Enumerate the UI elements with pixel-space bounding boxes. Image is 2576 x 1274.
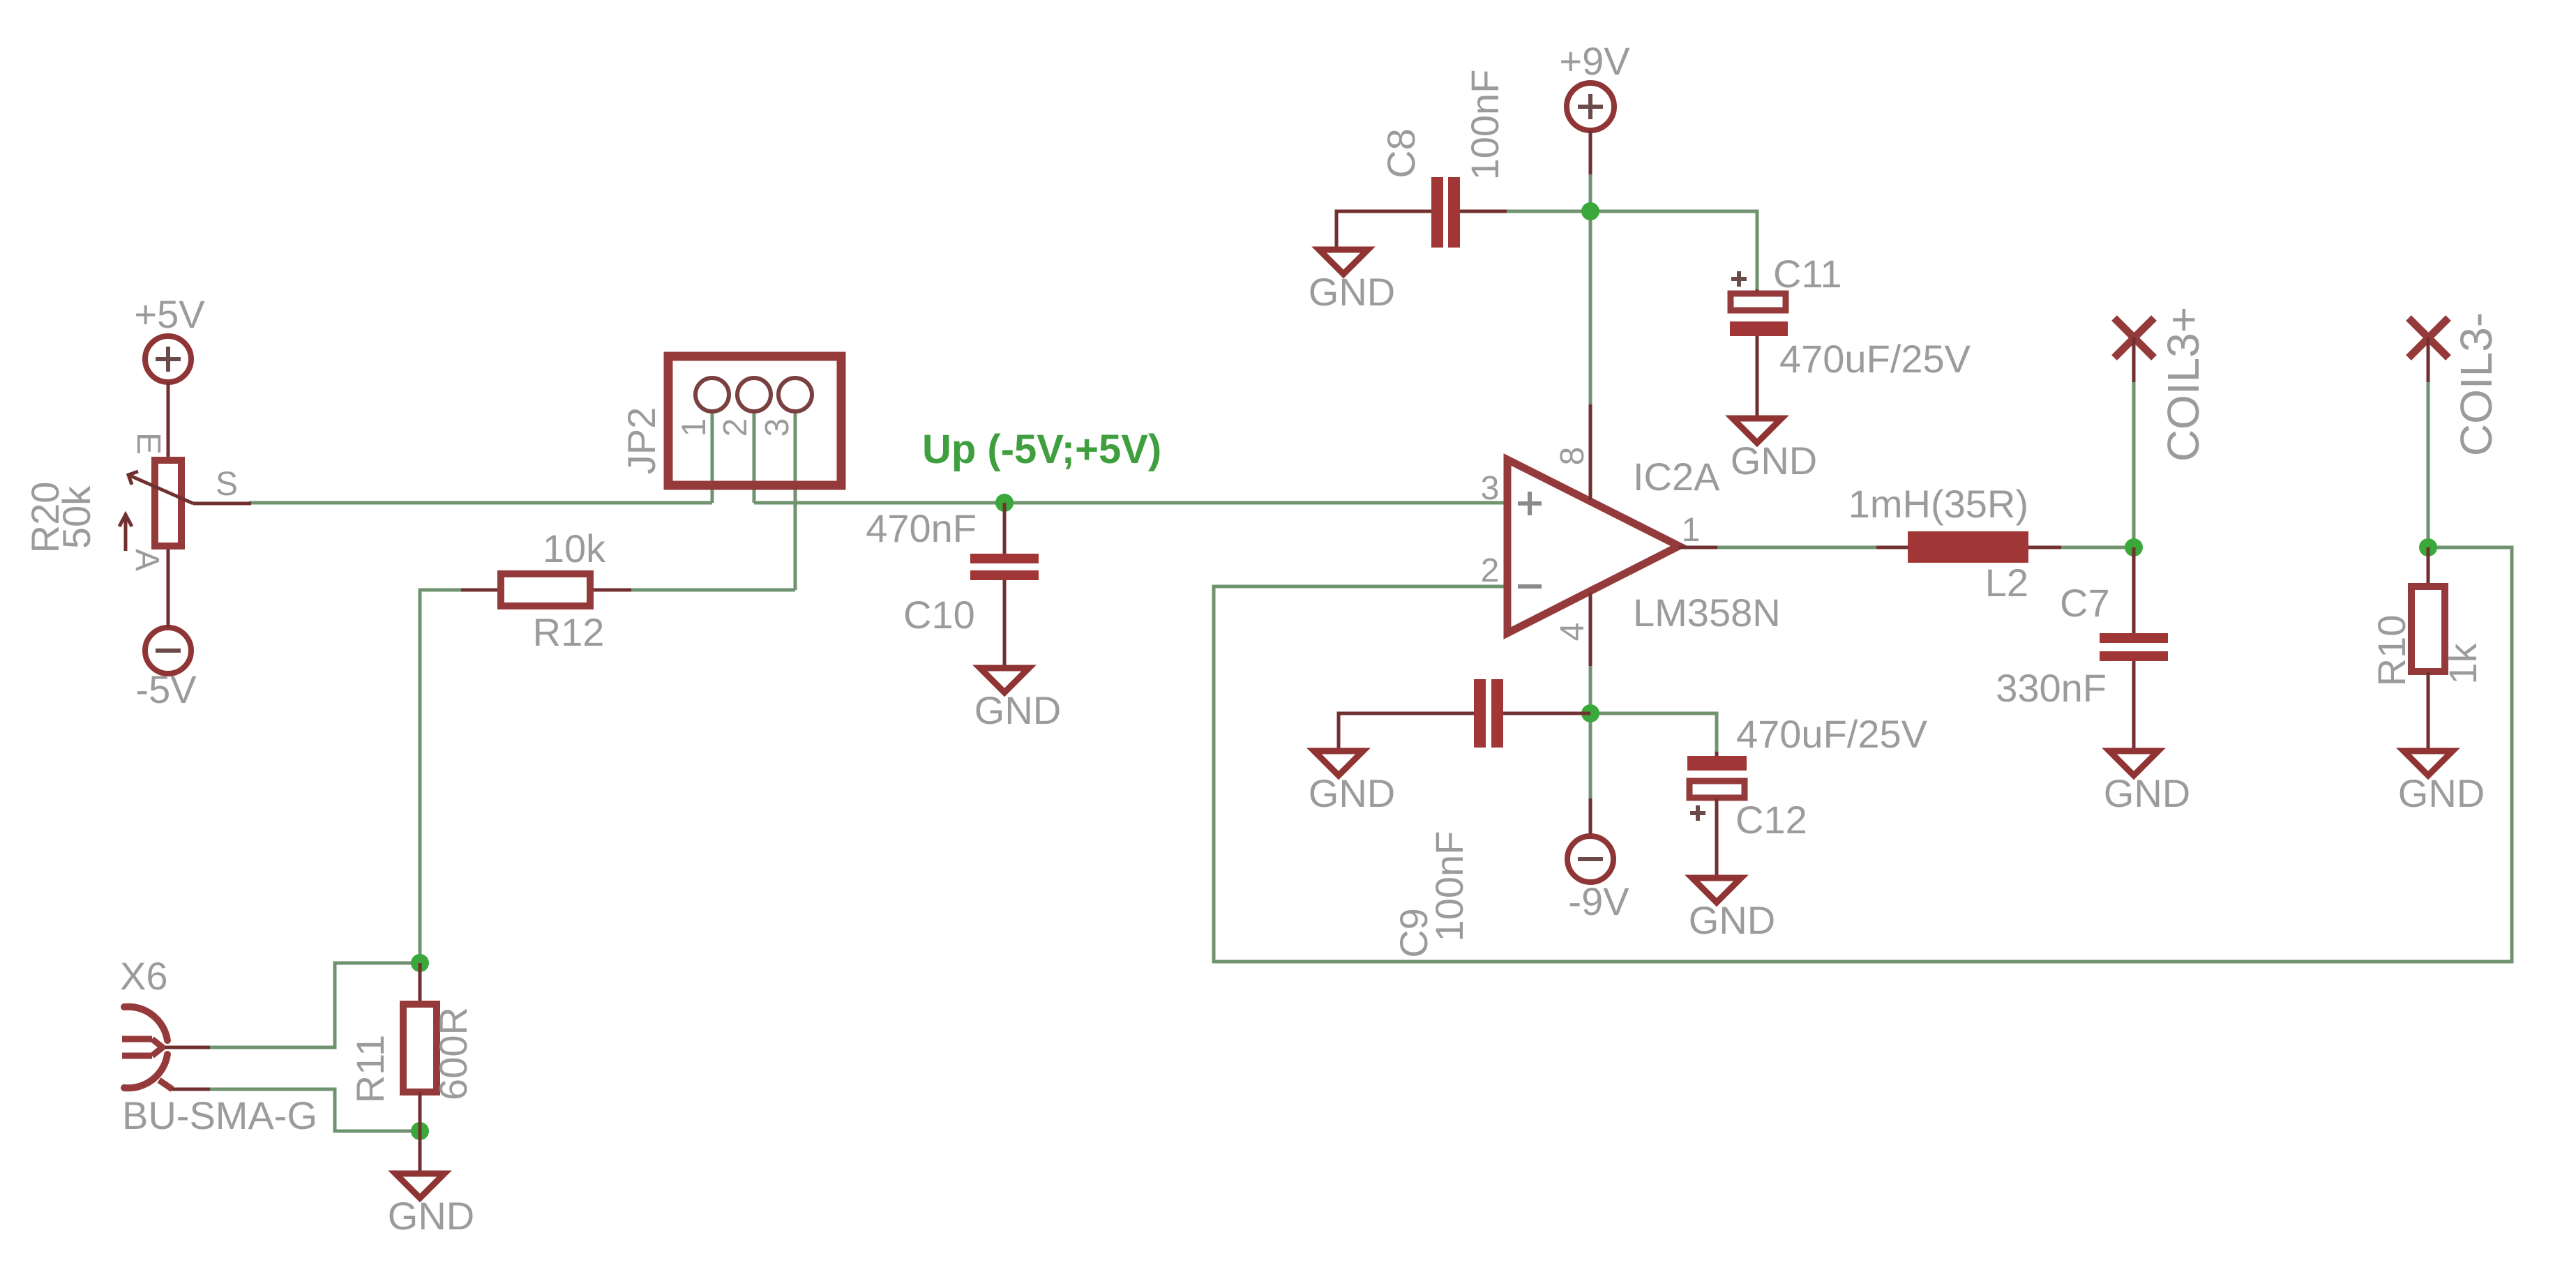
svg-text:-5V: -5V <box>135 667 197 711</box>
svg-text:LM358N: LM358N <box>1633 591 1781 635</box>
svg-text:A: A <box>128 549 165 571</box>
svg-text:C10: C10 <box>903 593 975 637</box>
wire JP2 pin 2 drop <box>753 411 756 503</box>
supply +5V <box>134 292 205 460</box>
svg-text:GND: GND <box>1309 771 1395 815</box>
wire node to X6 center pin <box>208 963 420 1047</box>
svg-text:4: 4 <box>1554 623 1591 642</box>
potentiometer R20 50k <box>23 432 251 571</box>
capacitor C9 100nF <box>1339 679 1590 958</box>
junction node R11 top <box>411 954 429 972</box>
pin COIL3+ <box>2114 307 2208 462</box>
svg-text:600R: 600R <box>431 1007 475 1100</box>
svg-text:R11: R11 <box>348 1035 392 1104</box>
wire +9V rail to C11 <box>1590 211 1757 291</box>
connector X6 BU-SMA-G <box>120 954 317 1137</box>
wire JP2 pin 3 drop <box>794 411 797 590</box>
capacitor C10 470nF <box>866 503 1039 668</box>
ground for R10 <box>2398 751 2485 815</box>
svg-text:470nF: 470nF <box>866 506 977 550</box>
svg-text:COIL3+: COIL3+ <box>2158 307 2208 462</box>
svg-text:S: S <box>216 466 238 503</box>
svg-text:+5V: +5V <box>134 292 205 336</box>
svg-text:GND: GND <box>1731 439 1817 483</box>
pin COIL3- <box>2409 312 2501 456</box>
junction node Up at C10 <box>995 494 1014 512</box>
supply +9V <box>1559 39 1630 174</box>
jumper JP2 <box>619 356 841 485</box>
supply -5V <box>135 546 197 711</box>
svg-text:GND: GND <box>388 1194 474 1238</box>
svg-text:1mH(35R): 1mH(35R) <box>1848 482 2028 526</box>
wire COIL3+ drop <box>2132 380 2136 547</box>
wire feedback loop: pin 2 to COIL3- node <box>1214 547 2512 962</box>
wire X6 shield to R11 bottom node <box>208 1089 420 1131</box>
svg-text:+9V: +9V <box>1559 39 1630 83</box>
svg-text:330nF: 330nF <box>1996 666 2107 710</box>
wire op-amp pin 4 to V- rail <box>1589 666 1592 713</box>
svg-text:IC2A: IC2A <box>1633 455 1720 499</box>
wire V- rail to -9V <box>1589 713 1592 798</box>
svg-text:R10: R10 <box>2370 615 2413 687</box>
ground for C12 <box>1689 878 1775 942</box>
svg-text:2: 2 <box>717 418 754 437</box>
ground for C11 <box>1731 418 1817 483</box>
ground for C9 <box>1309 751 1395 815</box>
svg-text:C12: C12 <box>1735 798 1807 842</box>
svg-text:JP2: JP2 <box>619 407 663 475</box>
wire V- rail to C12 <box>1590 713 1717 753</box>
wire op-amp output pin 1 to L2 <box>1716 546 1880 549</box>
svg-text:1k: 1k <box>2441 642 2485 684</box>
wire net Up: JP2 pin 2 to op-amp pin 3 <box>754 501 1507 505</box>
wire JP2 pin 1 drop <box>711 411 714 503</box>
svg-text:C7: C7 <box>2060 581 2110 625</box>
svg-text:C11: C11 <box>1773 252 1842 296</box>
wire +9V rail <box>1503 171 1590 211</box>
wire +9V to op-amp pin 8 <box>1589 211 1592 404</box>
junction node R11 bottom <box>411 1122 429 1140</box>
inductor L2 1mH(35R) <box>1848 482 2061 605</box>
resistor R11 600R <box>348 963 475 1174</box>
svg-text:GND: GND <box>1309 270 1395 314</box>
svg-text:10k: 10k <box>543 526 606 570</box>
svg-text:GND: GND <box>1689 898 1775 942</box>
wire net Up: pot wiper S to JP2 pin 1 <box>249 501 712 505</box>
wire COIL3- drop <box>2427 380 2430 547</box>
wire R12 left to R11 node <box>420 590 464 963</box>
resistor R12 10k <box>461 526 631 654</box>
svg-text:R12: R12 <box>533 610 605 654</box>
capacitor C11 470uF/25V electrolytic <box>1730 252 1971 418</box>
wire JP2 pin 3 to R12 <box>614 589 795 592</box>
capacitor C12 470uF/25V electrolytic <box>1687 712 1928 878</box>
svg-text:C8: C8 <box>1379 128 1423 179</box>
svg-text:E: E <box>130 432 167 455</box>
resistor R10 1k <box>2370 547 2485 751</box>
junction node +9V <box>1581 202 1599 220</box>
svg-text:100nF: 100nF <box>1427 831 1471 942</box>
svg-text:GND: GND <box>974 688 1061 732</box>
svg-text:-9V: -9V <box>1568 879 1629 923</box>
svg-text:L2: L2 <box>1985 561 2028 605</box>
svg-text:470uF/25V: 470uF/25V <box>1779 337 1971 381</box>
op-amp IC2A LM358N <box>1481 404 1781 666</box>
supply -9V <box>1567 798 1629 923</box>
svg-text:COIL3-: COIL3- <box>2451 312 2501 456</box>
svg-text:1: 1 <box>1682 512 1701 549</box>
svg-text:2: 2 <box>1481 552 1500 589</box>
ground for R11 <box>388 1174 474 1238</box>
svg-text:GND: GND <box>2104 771 2190 815</box>
junction node COIL3- <box>2419 538 2437 556</box>
svg-text:GND: GND <box>2398 771 2485 815</box>
svg-text:100nF: 100nF <box>1463 70 1507 181</box>
svg-text:50k: 50k <box>54 485 98 549</box>
capacitor C8 100nF <box>1336 70 1507 250</box>
junction node V- <box>1581 704 1599 722</box>
svg-text:8: 8 <box>1554 447 1591 466</box>
junction node COIL3+ <box>2125 538 2143 556</box>
svg-text:3: 3 <box>759 418 796 437</box>
svg-text:X6: X6 <box>120 954 168 998</box>
ground for C10 <box>974 668 1061 732</box>
ground for C7 <box>2104 751 2190 815</box>
svg-text:3: 3 <box>1481 470 1500 507</box>
wire L2 to COIL3+ node <box>2058 546 2134 549</box>
svg-text:470uF/25V: 470uF/25V <box>1736 712 1928 756</box>
svg-text:Up (-5V;+5V): Up (-5V;+5V) <box>922 427 1161 472</box>
capacitor C7 330nF <box>1996 547 2168 751</box>
svg-text:BU-SMA-G: BU-SMA-G <box>122 1093 317 1137</box>
ground for C8 <box>1309 250 1395 314</box>
svg-text:1: 1 <box>676 418 713 437</box>
